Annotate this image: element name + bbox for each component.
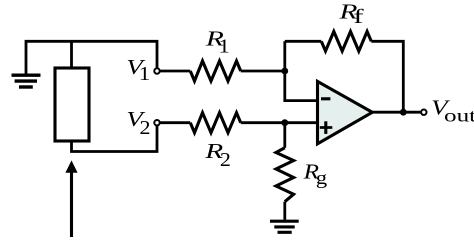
svg-text:2: 2 bbox=[140, 116, 151, 139]
svg-text:f: f bbox=[353, 5, 364, 27]
svg-text:1: 1 bbox=[139, 62, 151, 84]
svg-text:2: 2 bbox=[220, 148, 231, 171]
svg-text:1: 1 bbox=[218, 35, 230, 57]
svg-text:out: out bbox=[444, 105, 474, 126]
svg-text:g: g bbox=[316, 167, 328, 189]
